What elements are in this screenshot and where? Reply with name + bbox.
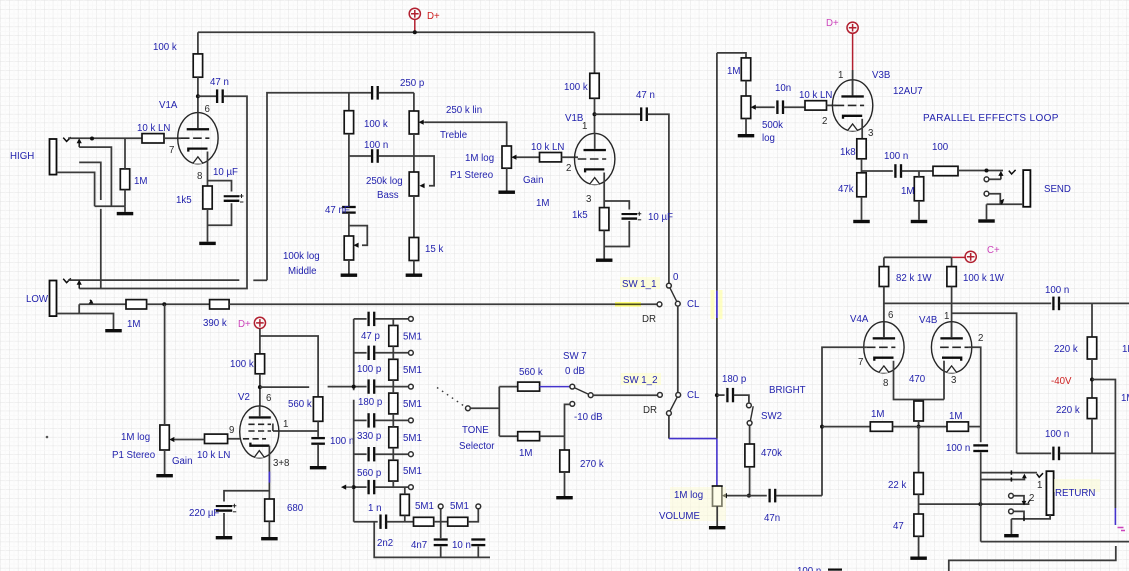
terminal 47p xyxy=(409,317,414,322)
svg-text:22 k: 22 k xyxy=(888,480,906,491)
wire rung 180p xyxy=(354,386,367,388)
wire between 5M1 xyxy=(434,521,448,523)
svg-text:100: 100 xyxy=(932,142,949,153)
svg-text:1M: 1M xyxy=(1121,393,1129,404)
wiper bass arrow xyxy=(419,183,424,188)
wire V2 cathode blue segment xyxy=(268,472,270,483)
wire 220uF to ground xyxy=(223,513,225,536)
terminal -10dB xyxy=(570,402,575,407)
svg-text:220 k: 220 k xyxy=(1054,344,1078,355)
capacitor 100n out top xyxy=(1052,297,1060,311)
ground 680 xyxy=(261,537,278,540)
wire 220k to 100n xyxy=(1091,419,1093,454)
jack HIGH ring contact arrow xyxy=(77,138,82,147)
svg-text:5M1: 5M1 xyxy=(403,365,422,376)
wire SW1_2 down xyxy=(668,416,670,439)
svg-text:2: 2 xyxy=(566,163,571,174)
resistor 390k xyxy=(210,300,230,309)
wire pot to ground xyxy=(745,119,747,135)
wire 560k stub xyxy=(499,386,517,388)
resistor 47 xyxy=(914,514,923,536)
wire 100n to bass wiper xyxy=(378,156,434,186)
resistor 1M HIGH xyxy=(120,169,129,190)
svg-text:D+: D+ xyxy=(238,319,251,330)
svg-text:100 n: 100 n xyxy=(946,443,970,454)
svg-text:CL: CL xyxy=(687,390,700,401)
wire SEND ring xyxy=(989,178,1001,180)
svg-text:SW 7: SW 7 xyxy=(563,351,587,362)
wire yellow highlight xyxy=(615,302,641,307)
svg-text:log: log xyxy=(762,133,775,144)
capacitor 100p ladder xyxy=(367,346,375,360)
svg-text:47n: 47n xyxy=(764,513,780,524)
resistor 15k xyxy=(409,238,418,261)
wire V3B plate lead xyxy=(852,70,854,95)
ground VOLUME xyxy=(709,526,726,529)
resistor 1k5 V1B xyxy=(600,208,609,231)
wire SEND sleeve xyxy=(987,203,1024,205)
wire LOW tip xyxy=(68,279,239,281)
ground 100n V2 xyxy=(310,466,327,469)
capacitor 100n out bottom xyxy=(1052,447,1060,461)
svg-text:LOW: LOW xyxy=(26,294,49,305)
capacitor 47n volume xyxy=(768,489,776,503)
svg-text:1M: 1M xyxy=(727,66,740,77)
wire treble wiper to P1 xyxy=(425,122,507,146)
svg-text:V3B: V3B xyxy=(872,70,890,81)
jack LOW ring contact arrow xyxy=(77,280,82,289)
wire HIGH tip xyxy=(68,137,142,139)
terminal 180p xyxy=(409,384,414,389)
wire 47k ground xyxy=(861,197,863,220)
svg-text:2: 2 xyxy=(978,333,983,344)
resistor 5M1 #7 xyxy=(414,517,434,526)
resistor 470k xyxy=(745,444,754,467)
svg-text:12AU7: 12AU7 xyxy=(893,86,923,97)
resistor 1M V4A xyxy=(870,422,892,431)
jack LOW tip contact xyxy=(63,278,71,282)
svg-text:1: 1 xyxy=(1037,480,1042,491)
ground P1 V1B xyxy=(498,191,515,194)
jack SEND contact arrow xyxy=(998,171,1003,179)
svg-text:V1B: V1B xyxy=(565,113,583,124)
svg-text:100 k: 100 k xyxy=(564,82,588,93)
wire RETURN tip sw xyxy=(981,477,1025,480)
svg-text:1M: 1M xyxy=(519,448,532,459)
resistor 5M1 #4 xyxy=(389,427,398,448)
jack LOW sleeve xyxy=(57,314,114,330)
svg-text:Middle: Middle xyxy=(288,266,317,277)
svg-text:680: 680 xyxy=(287,503,304,514)
wire V4B plate xyxy=(951,287,953,338)
wire LOW shunt stub xyxy=(253,279,267,281)
capacitor 4n7 xyxy=(434,538,448,546)
wire 270k stub xyxy=(564,436,566,450)
wire 1M to pot xyxy=(745,81,747,96)
resistor 1M LOW xyxy=(126,300,147,309)
svg-text:TONE: TONE xyxy=(462,425,489,436)
svg-text:2: 2 xyxy=(1029,493,1034,504)
wire 1M stub xyxy=(918,171,920,177)
wire pot bottom xyxy=(164,450,166,474)
terminal RETURN ring xyxy=(1009,493,1014,498)
arrow RETURN tip sw xyxy=(1022,474,1027,479)
triode V1B xyxy=(575,133,615,184)
svg-text:RETURN: RETURN xyxy=(1055,488,1095,499)
svg-text:5M1: 5M1 xyxy=(450,501,469,512)
wire 470 bottom xyxy=(918,421,920,427)
wire long to SW1_1 xyxy=(229,303,657,305)
svg-text:Bass: Bass xyxy=(377,190,399,201)
svg-text:CL: CL xyxy=(687,299,700,310)
svg-text:V2: V2 xyxy=(238,392,250,403)
wire cathode to 220uF xyxy=(224,491,269,502)
wiper 500k xyxy=(751,105,757,110)
wire wiper to 10kLN xyxy=(517,156,540,158)
resistor 100k tone xyxy=(344,111,353,134)
svg-text:5M1: 5M1 xyxy=(403,433,422,444)
terminal TONE selector xyxy=(466,406,471,411)
resistor 1M V3B input xyxy=(741,58,750,81)
svg-text:250 p: 250 p xyxy=(400,78,424,89)
svg-text:560 p: 560 p xyxy=(357,468,381,479)
terminal 4n7 xyxy=(438,504,443,509)
wire V3B cathode xyxy=(861,119,863,139)
resistor 100 send xyxy=(933,166,958,175)
svg-text:560 k: 560 k xyxy=(288,399,312,410)
wire pot top xyxy=(164,304,166,425)
ground 270k xyxy=(556,496,573,499)
wire V2 plate xyxy=(259,374,261,406)
wire V1A plate to rail xyxy=(197,32,199,54)
wire rung 47p xyxy=(354,318,367,320)
wire V4A grid xyxy=(822,347,867,495)
junction rail D+ xyxy=(413,30,417,34)
resistor 5M1 #3 xyxy=(389,393,398,414)
wire 1k5 to ground V1B xyxy=(603,230,605,258)
power D+ V3B xyxy=(847,22,858,70)
wire 1M mid xyxy=(893,426,948,428)
highlight volume xyxy=(670,487,726,521)
resistor 470 xyxy=(914,401,923,421)
wire to 47n xyxy=(198,95,217,97)
wire HIGH sleeve xyxy=(57,172,95,206)
wire 100n left xyxy=(349,155,371,157)
wire grid V1A xyxy=(164,137,181,139)
svg-text:47 n: 47 n xyxy=(636,90,655,101)
wire 1M to 270k node xyxy=(540,435,565,437)
junction bright tap xyxy=(715,393,719,397)
wire 15k to ground xyxy=(413,261,415,274)
resistor 560k V2 xyxy=(313,397,322,421)
wire V4B out loop xyxy=(952,313,1017,453)
potentiometer 500k log xyxy=(741,96,750,119)
wire V1B plate to rail xyxy=(594,32,596,73)
resistor 22k xyxy=(914,473,923,495)
wire wiper to 10n xyxy=(756,106,774,108)
svg-text:180 p: 180 p xyxy=(722,374,746,385)
wire 82k stub xyxy=(883,257,885,266)
wire SW1_1 to SW1_2 xyxy=(677,306,679,392)
wire 47n to V4A grid xyxy=(776,495,822,497)
wire rung 100p right xyxy=(375,352,409,354)
wire 4n7 stub xyxy=(440,509,442,522)
capacitor 47n V1A out xyxy=(216,89,224,103)
wire 22k to 47 xyxy=(918,494,920,514)
wire -40V blue tail xyxy=(1114,508,1116,525)
wire LOW signal xyxy=(79,303,126,305)
wire node to 100n xyxy=(862,170,893,172)
ground RETURN xyxy=(1004,534,1019,537)
svg-text:SW 1_2: SW 1_2 xyxy=(623,375,657,386)
wire 5M1 #3 stubs xyxy=(392,387,394,421)
wire wiper to 47n xyxy=(727,495,766,497)
wire 1M to V4B grid xyxy=(968,426,980,428)
wire rung 180p right xyxy=(375,386,409,388)
svg-text:180 p: 180 p xyxy=(358,397,382,408)
svg-text:BRIGHT: BRIGHT xyxy=(769,385,806,396)
resistor 10k LN V1A xyxy=(142,134,164,143)
svg-text:2n2: 2n2 xyxy=(377,538,393,549)
wire pot to 10kLN xyxy=(175,439,205,441)
resistor 1k8 xyxy=(857,139,866,159)
wire grid V3B xyxy=(827,104,837,106)
capacitor 10n V3B xyxy=(776,100,784,114)
wire rung 100p xyxy=(354,352,367,354)
ground 1M send xyxy=(911,220,928,223)
wire tone top vertical xyxy=(266,93,268,280)
triode V2 parallel xyxy=(240,406,279,458)
wire 470 stub xyxy=(918,400,920,402)
svg-text:1k5: 1k5 xyxy=(176,195,192,206)
resistor 1k5 V1A xyxy=(203,186,212,209)
switch SW2 xyxy=(747,403,754,425)
svg-text:V4A: V4A xyxy=(850,314,869,325)
svg-text:4n7: 4n7 xyxy=(411,540,427,551)
capacitor 1n ladder xyxy=(367,480,375,494)
arrow RETURN ring xyxy=(1022,501,1027,506)
svg-text:DR: DR xyxy=(642,314,656,325)
svg-text:Gain: Gain xyxy=(523,175,543,186)
wire RETURN ground xyxy=(1010,519,1012,534)
svg-text:10 k LN: 10 k LN xyxy=(799,90,832,101)
jack HIGH tip contact xyxy=(63,137,71,141)
resistor 5M1 #6 xyxy=(400,494,409,515)
wire 1k5 to ground xyxy=(207,209,209,242)
ground 47k xyxy=(853,220,870,223)
svg-text:HIGH: HIGH xyxy=(10,151,34,162)
resistor 100k V2 plate xyxy=(255,354,264,374)
wire cathode to 10uF V1B xyxy=(604,201,629,210)
capacitor 10n xyxy=(471,538,485,546)
svg-text:100 n: 100 n xyxy=(884,151,908,162)
wire volume ground xyxy=(716,506,718,526)
svg-text:10 µF: 10 µF xyxy=(648,212,673,223)
svg-text:1: 1 xyxy=(944,311,949,322)
wire HIGH-LOW link xyxy=(100,209,102,289)
wire SW7 to SW1_2 xyxy=(593,394,657,396)
wire V2 cathode xyxy=(268,446,270,499)
triode V4A xyxy=(864,322,904,373)
capacitor 250p xyxy=(371,86,379,100)
svg-text:-40V: -40V xyxy=(1051,376,1072,387)
junction V2 input node xyxy=(162,302,166,306)
wire grid V1B xyxy=(562,156,579,158)
terminal RETURN sleeve sw xyxy=(1009,509,1014,514)
svg-text:100 k: 100 k xyxy=(153,42,177,53)
wire HIGH ring xyxy=(79,147,111,206)
svg-text:Selector: Selector xyxy=(459,441,495,452)
svg-text:1M: 1M xyxy=(949,411,962,422)
wire bottom long xyxy=(981,541,1129,543)
wire volume blue xyxy=(716,439,718,486)
dotted selector line xyxy=(437,388,464,407)
wire tone stack top xyxy=(267,92,371,94)
resistor 100k 1W xyxy=(947,267,956,287)
svg-text:1k5: 1k5 xyxy=(572,210,588,221)
label RETURN highlight xyxy=(1054,479,1100,492)
wire 1M top corner xyxy=(717,53,746,58)
wire 100n return down xyxy=(980,452,982,541)
wire selector vertical xyxy=(498,387,500,437)
terminal SEND sw xyxy=(984,191,989,196)
svg-text:82 k 1W: 82 k 1W xyxy=(896,273,932,284)
svg-text:-10 dB: -10 dB xyxy=(574,412,603,423)
wire 5M1#8 right xyxy=(468,509,479,522)
svg-text:1M: 1M xyxy=(1122,344,1129,355)
svg-text:100 p: 100 p xyxy=(357,364,381,375)
svg-text:220 k: 220 k xyxy=(1056,405,1080,416)
wire V2 grid right xyxy=(273,430,318,432)
wiper P1 V2 xyxy=(169,437,175,442)
wire RETURN ring sw xyxy=(1013,496,1024,502)
terminal 560p xyxy=(409,452,414,457)
svg-text:10 k LN: 10 k LN xyxy=(531,142,564,153)
svg-text:47 n: 47 n xyxy=(210,77,229,88)
wire 5M1 #1 stubs xyxy=(392,319,394,353)
terminal SEND ring xyxy=(984,177,989,182)
wire bottom rail xyxy=(374,522,490,558)
wire D+ branch to 560k xyxy=(260,336,318,397)
wire V4A plate xyxy=(883,287,885,338)
svg-text:DR: DR xyxy=(643,405,657,416)
svg-text:P1 Stereo: P1 Stereo xyxy=(450,170,493,181)
wire P1 to ground xyxy=(506,168,508,190)
wire V1B plate xyxy=(594,98,596,133)
svg-text:390 k: 390 k xyxy=(203,318,227,329)
svg-text:100 k 1W: 100 k 1W xyxy=(963,273,1005,284)
ground V1B cathode xyxy=(596,259,613,262)
resistor 220k upper xyxy=(1087,337,1096,359)
resistor 10k LN V2 xyxy=(205,434,228,443)
junction V1B out xyxy=(593,112,597,116)
potentiometer 250k lin Treble xyxy=(409,111,418,134)
jack LOW signal contact arrow xyxy=(88,300,94,305)
svg-text:100 n: 100 n xyxy=(797,566,821,571)
svg-text:15 k: 15 k xyxy=(425,244,443,255)
svg-text:1M: 1M xyxy=(127,319,140,330)
svg-text:7: 7 xyxy=(858,357,863,368)
svg-text:V4B: V4B xyxy=(919,315,937,326)
svg-text:1 n: 1 n xyxy=(368,503,381,514)
ground 47 xyxy=(910,557,927,560)
svg-text:Gain: Gain xyxy=(172,456,192,467)
svg-text:100 n: 100 n xyxy=(364,140,388,151)
wire 1M ground xyxy=(918,201,920,220)
resistor 10k LN V1B xyxy=(540,153,562,162)
wire 100k to 100n xyxy=(348,134,350,207)
ground 500k xyxy=(738,134,755,137)
wire plate to ladder xyxy=(260,386,309,388)
wire 100k stub xyxy=(348,93,350,111)
svg-text:250k log: 250k log xyxy=(366,176,403,187)
power D+ top xyxy=(409,8,420,32)
wire V1B cathode xyxy=(603,173,605,208)
wire HIGH ground bus xyxy=(95,205,125,207)
svg-text:0: 0 xyxy=(673,272,679,283)
svg-text:SW 1_1: SW 1_1 xyxy=(622,279,656,290)
resistor 1M send xyxy=(914,177,923,201)
mark pink tail xyxy=(1118,528,1126,531)
svg-text:2: 2 xyxy=(822,116,827,127)
jack RETURN tip hook xyxy=(1037,473,1043,477)
capacitor 100n return xyxy=(973,444,988,452)
capacitor 47nF middle xyxy=(342,206,356,214)
wire 47n to SW1_1 xyxy=(648,114,669,283)
wire treble to bass xyxy=(413,134,415,172)
svg-text:100 k: 100 k xyxy=(230,359,254,370)
svg-text:1: 1 xyxy=(838,70,843,81)
svg-text:3: 3 xyxy=(951,375,956,386)
svg-text:0 dB: 0 dB xyxy=(565,366,585,377)
label SW 1_2 xyxy=(621,373,661,385)
wire treble chain xyxy=(413,93,415,111)
svg-text:8: 8 xyxy=(197,171,202,182)
junction V2 plate node xyxy=(258,385,262,389)
wiper middle arrow xyxy=(353,243,358,248)
wire rung 330p xyxy=(354,419,367,421)
junction HIGH tip contact xyxy=(90,137,94,141)
wire 47 ground xyxy=(918,536,920,556)
junction grid V4A xyxy=(820,425,824,429)
capacitor 100n send xyxy=(894,164,902,178)
svg-text:PARALLEL EFFECTS LOOP: PARALLEL EFFECTS LOOP xyxy=(923,113,1059,124)
ground Middle xyxy=(341,274,358,277)
potentiometer 1M log VOLUME xyxy=(713,486,722,506)
wire bottom stair xyxy=(949,546,1116,571)
wire 100k1W stub xyxy=(951,257,953,266)
junction send tip xyxy=(985,169,989,173)
wire return row xyxy=(919,503,1030,505)
wire 180p to SW2 xyxy=(734,395,749,402)
wire V1A cathode xyxy=(207,152,209,187)
svg-text:330 p: 330 p xyxy=(357,431,381,442)
wire SEND ground xyxy=(986,204,988,219)
svg-text:250 k lin: 250 k lin xyxy=(446,105,482,116)
resistor 5M1 #5 xyxy=(389,460,398,481)
wire C+ red xyxy=(952,256,965,258)
wire ladder bus xyxy=(353,319,355,522)
wire 5M1#6 stubs xyxy=(404,487,406,522)
switch SW1_2 xyxy=(658,393,681,416)
capacitor 2n2 xyxy=(379,515,387,529)
wire to 47n V1B xyxy=(595,113,641,115)
junction V1A plate node xyxy=(196,94,200,98)
jack LOW body xyxy=(50,281,57,317)
tick RETURN sleeve xyxy=(1023,517,1025,521)
resistor 270k xyxy=(560,450,569,472)
svg-text:10 n: 10 n xyxy=(452,540,471,551)
